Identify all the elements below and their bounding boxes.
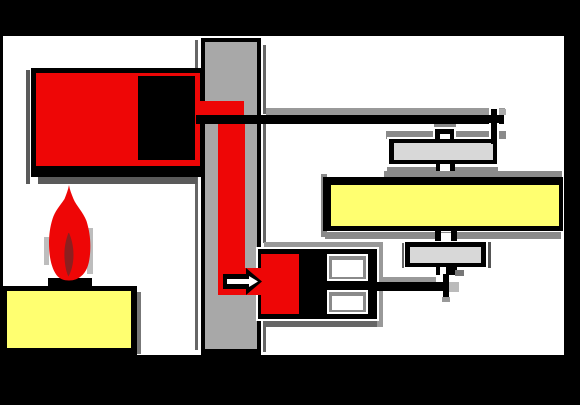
upper neck sides bbox=[436, 164, 441, 179]
main piston rod bbox=[196, 115, 504, 124]
yoke top window gray bevel bbox=[329, 256, 366, 279]
power cylinder red gas bbox=[261, 254, 299, 313]
white outline around upper pin (below rod) bbox=[489, 123, 499, 139]
flywheel top shadow band bbox=[384, 171, 563, 177]
top border bar bbox=[0, 0, 580, 36]
candle right shadow bbox=[133, 292, 141, 354]
yoke top shadow bbox=[264, 242, 383, 249]
upper hub white outline bbox=[433, 127, 456, 140]
white outline around upper pin (over shadow band) bbox=[489, 107, 499, 115]
yoke bottom window white center bbox=[332, 296, 363, 310]
flame dark core bbox=[64, 233, 73, 277]
lower gear face bbox=[410, 247, 481, 263]
flow arrow (black outline + white arrow) bbox=[220, 265, 266, 298]
shadow right of lower pin top bbox=[455, 270, 464, 276]
wick holder bbox=[48, 278, 93, 290]
lower hub white center bbox=[440, 267, 447, 275]
flywheel left shadow bbox=[321, 174, 327, 237]
column right shadow below yoke bbox=[263, 318, 266, 352]
shadows beside upper neck bbox=[387, 167, 436, 173]
hot cylinder bottom shadow bbox=[38, 177, 197, 184]
flywheel bottom shadow band bbox=[325, 232, 561, 239]
upper gear outline bbox=[389, 139, 498, 164]
vertical red channel bbox=[218, 115, 245, 295]
column right shadow below rod bbox=[263, 124, 266, 243]
left border line bbox=[0, 0, 3, 405]
yoke bottom window white border bbox=[327, 290, 368, 314]
upper neck white center bbox=[440, 164, 450, 179]
upper gear face bbox=[394, 143, 493, 160]
flywheel (yellow) bbox=[331, 185, 559, 226]
yoke top window white center bbox=[332, 260, 363, 277]
lower gear left shadow bbox=[402, 243, 405, 268]
yoke top window white border bbox=[327, 254, 368, 281]
upper gear white outline bbox=[387, 137, 500, 166]
shadow band above yoke rod bbox=[374, 277, 436, 283]
shadow right of upper pin top bbox=[497, 109, 507, 115]
yoke white outline bbox=[256, 247, 379, 321]
right border bar bbox=[564, 0, 580, 405]
displacer piston (black) bbox=[138, 76, 195, 160]
arrow white inner bbox=[227, 276, 258, 287]
candle body (yellow) bbox=[7, 291, 131, 348]
shadow band above main rod bbox=[266, 108, 505, 115]
column right shadow bbox=[263, 45, 266, 114]
lower crank pin bbox=[443, 274, 449, 297]
lower gear outline bbox=[405, 242, 486, 267]
lower hub bbox=[436, 267, 457, 275]
lower gear right shadow bbox=[486, 242, 491, 268]
yoke / power piston frame bbox=[258, 249, 377, 319]
upper hub white center bbox=[440, 134, 450, 140]
shadow right of lower pin bbox=[449, 282, 460, 292]
shadow below lower pin bbox=[442, 297, 450, 302]
lower red channel (column to power cylinder) bbox=[218, 268, 262, 295]
shadow band above upper gear bbox=[386, 131, 506, 139]
upper crank pin bbox=[491, 109, 497, 144]
bottom border bar bbox=[0, 355, 580, 405]
yoke connecting rod bbox=[377, 282, 449, 291]
candle outline bbox=[2, 286, 138, 355]
lower crank pin white outline bbox=[441, 275, 451, 298]
flame halo left bbox=[44, 237, 49, 265]
flame halo right bbox=[87, 228, 93, 274]
flywheel outline bbox=[323, 177, 563, 231]
lower neck sides bbox=[435, 231, 441, 242]
lower neck white center bbox=[441, 233, 452, 242]
column left shadow bbox=[195, 40, 199, 350]
arrow black body bbox=[223, 268, 262, 295]
upper red channel (cylinder to column) bbox=[196, 101, 244, 116]
hot cylinder red interior bbox=[36, 73, 201, 166]
hot cylinder outline bbox=[31, 68, 205, 177]
flame bbox=[40, 183, 96, 281]
yoke bottom shadow bbox=[264, 320, 377, 327]
yoke bottom window gray bevel bbox=[329, 292, 366, 312]
regenerator column outline bbox=[201, 38, 262, 356]
upper hub shadow bbox=[434, 124, 456, 131]
yoke right shadow bbox=[373, 246, 383, 327]
upper hub bbox=[435, 129, 454, 140]
lower gear white outline bbox=[404, 241, 488, 269]
hot cylinder left shadow bbox=[26, 70, 30, 184]
regenerator column gray body bbox=[205, 42, 257, 349]
